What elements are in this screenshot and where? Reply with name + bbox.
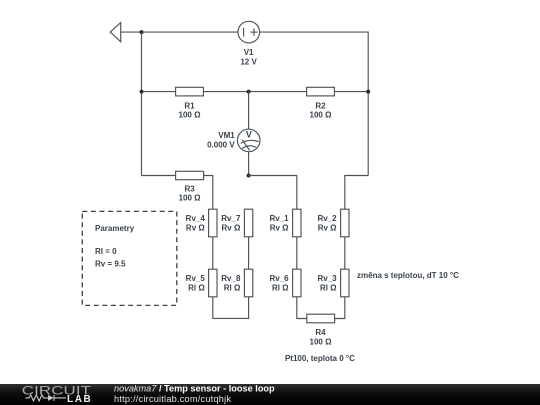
svg-text:100 Ω: 100 Ω [310, 337, 333, 346]
wire R2 right [334, 91, 368, 93]
parameter box (dashed) [82, 211, 177, 305]
svg-text:Rl Ω: Rl Ω [320, 283, 337, 292]
svg-text:změna s teplotou, dT 10 °C: změna s teplotou, dT 10 °C [357, 271, 459, 280]
wire VM1 top [248, 92, 250, 130]
node flag (input arrow) [110, 23, 121, 42]
wire bottom loop columns 1-2 [213, 297, 249, 319]
wire flag to V1 [121, 31, 238, 33]
wire column 1 middle [212, 237, 214, 269]
resistor Rv_2 [341, 209, 349, 237]
junction VM1 bottom [247, 174, 251, 178]
svg-text:novakma7 / Temp sensor - loose: novakma7 / Temp sensor - loose loop [114, 384, 275, 394]
svg-text:Rv = 9.5: Rv = 9.5 [95, 259, 126, 268]
svg-text:V: V [246, 130, 252, 140]
wire R4 to column 4 [335, 297, 345, 319]
svg-text:Rl = 0: Rl = 0 [95, 247, 117, 256]
svg-text:Rl Ω: Rl Ω [272, 283, 289, 292]
wire right branch to column 4 [345, 176, 368, 210]
svg-text:12 V: 12 V [240, 57, 257, 66]
wire junction to column 3 [249, 176, 297, 210]
junction mid top [247, 90, 251, 94]
wire left vertical drop [141, 32, 143, 175]
svg-text:Rv_1: Rv_1 [269, 214, 289, 223]
resistor Rv_8 [244, 269, 252, 297]
svg-text:Rv Ω: Rv Ω [186, 224, 205, 233]
svg-text:Rv_7: Rv_7 [221, 214, 241, 223]
resistor Rv_5 [209, 269, 217, 297]
svg-text:Rv_2: Rv_2 [317, 214, 337, 223]
logo resistor-diode squiggle [26, 395, 67, 401]
resistor Rv_6 [293, 269, 301, 297]
svg-text:VM1: VM1 [218, 131, 235, 140]
wire R1 to R2 [203, 91, 306, 93]
resistor Rv_4 [209, 209, 217, 237]
svg-text:R4: R4 [315, 328, 326, 337]
wire column 3 to R4 [297, 297, 307, 319]
svg-text:Rv_5: Rv_5 [186, 274, 206, 283]
svg-text:Rl Ω: Rl Ω [224, 283, 241, 292]
svg-text:0.000 V: 0.000 V [207, 140, 235, 149]
wire column 2 middle [248, 237, 250, 269]
svg-text:Rl Ω: Rl Ω [188, 283, 205, 292]
wire column 3 middle [296, 237, 298, 269]
svg-text:100 Ω: 100 Ω [179, 111, 202, 120]
svg-text:Pt100, teplota 0 °C: Pt100, teplota 0 °C [285, 354, 355, 363]
resistor R2 [307, 87, 335, 96]
wire R1 row left [142, 91, 176, 93]
resistor Rv_7 [244, 209, 252, 237]
svg-text:100 Ω: 100 Ω [179, 194, 202, 203]
resistor R4 [307, 314, 335, 323]
svg-text:V1: V1 [244, 48, 254, 57]
svg-text:R3: R3 [184, 184, 195, 193]
svg-text:Rv Ω: Rv Ω [222, 224, 241, 233]
wire R3 row left [142, 175, 176, 177]
svg-text:Parametry: Parametry [95, 224, 135, 233]
svg-text:Rv_4: Rv_4 [186, 214, 206, 223]
svg-text:Rv Ω: Rv Ω [270, 224, 289, 233]
resistor Rv_3 [341, 269, 349, 297]
svg-text:LAB: LAB [67, 394, 92, 405]
resistor R3 [176, 171, 204, 179]
voltage source V1 [238, 21, 260, 43]
resistor Rv_1 [293, 209, 301, 237]
svg-text:R2: R2 [315, 101, 326, 110]
wire R3 to column 1 [204, 176, 213, 210]
svg-text:Rv_8: Rv_8 [221, 274, 241, 283]
svg-text:http://circuitlab.com/cutqhjk: http://circuitlab.com/cutqhjk [114, 394, 231, 404]
junction left R1 [140, 90, 144, 94]
wire V1 to top-right corner [260, 32, 369, 175]
voltmeter VM1 [237, 129, 260, 152]
svg-text:R1: R1 [184, 101, 195, 110]
svg-text:100 Ω: 100 Ω [310, 111, 333, 120]
wire column 4 middle [344, 237, 346, 269]
svg-text:Rv_3: Rv_3 [317, 274, 337, 283]
wire VM1 bottom [248, 152, 250, 176]
node junction top-left [140, 30, 144, 34]
junction right R2 [366, 90, 370, 94]
resistor R1 [176, 87, 204, 96]
svg-text:Rv Ω: Rv Ω [318, 224, 337, 233]
svg-text:Rv_6: Rv_6 [269, 274, 289, 283]
footer bar [0, 384, 540, 405]
